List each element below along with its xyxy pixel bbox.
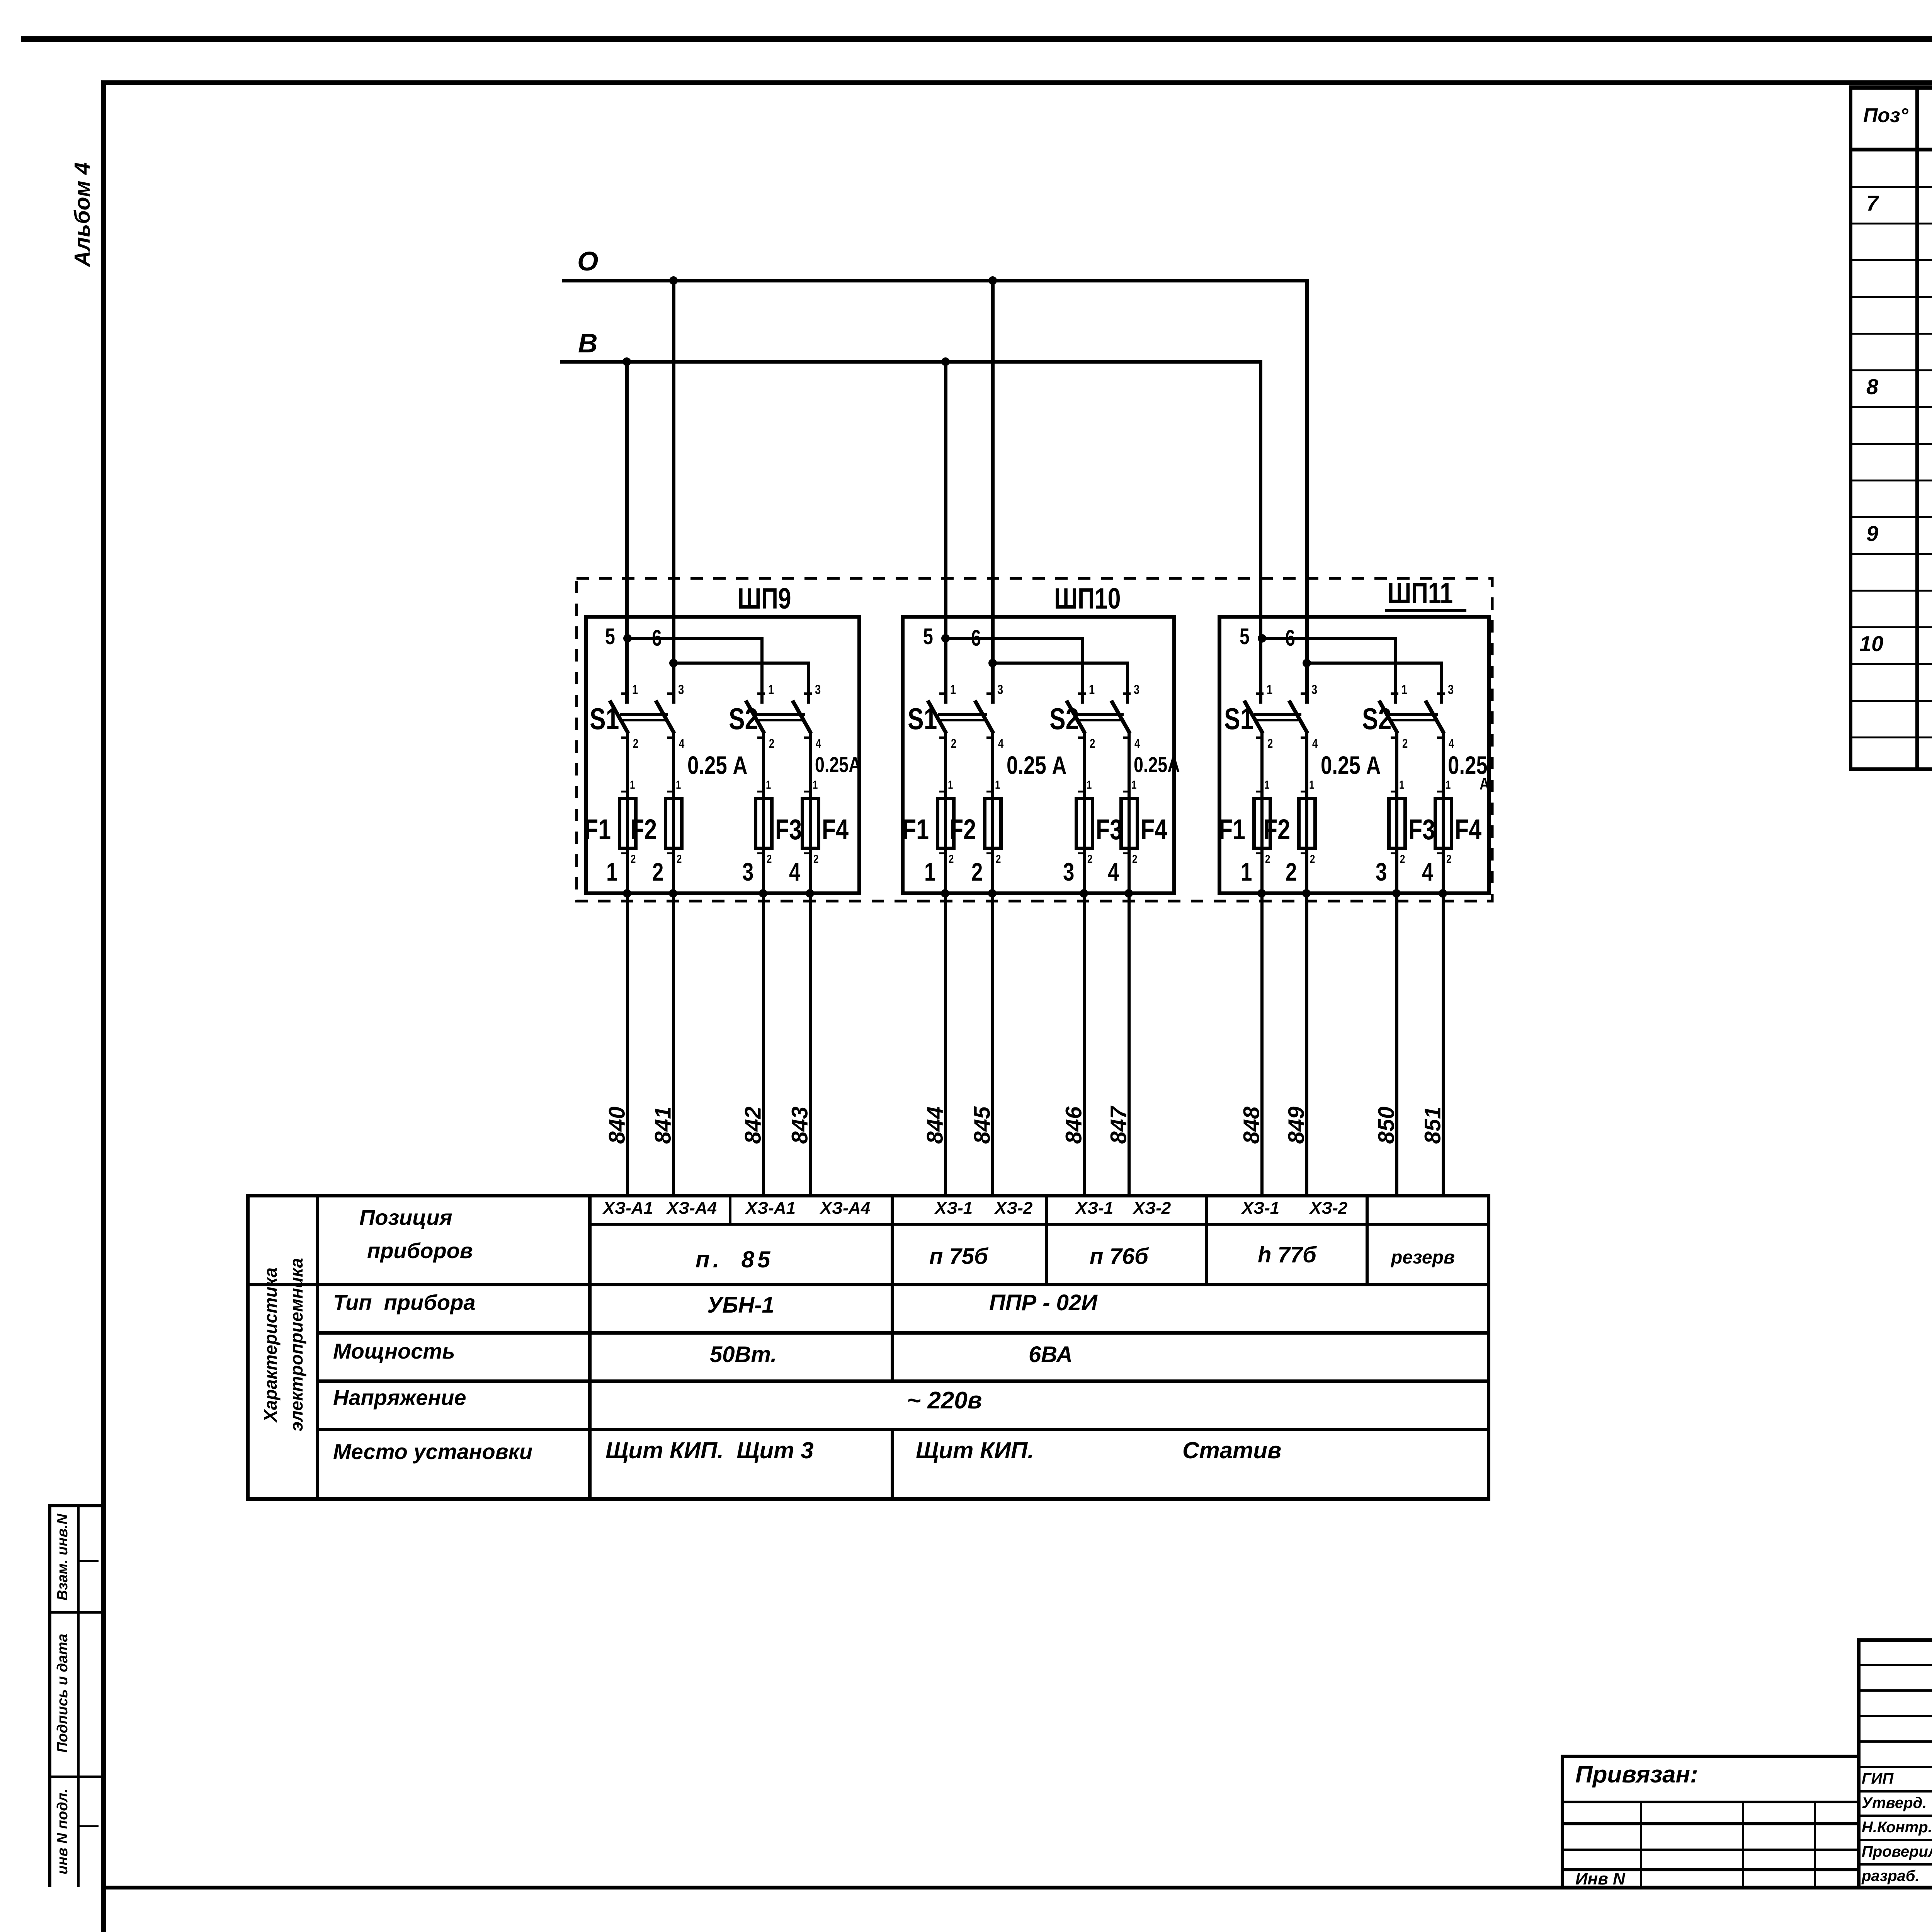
title block <box>0 0 1932 0</box>
terminal 6 <box>652 627 662 650</box>
title block names <box>0 0 1932 0</box>
rating label 0.25 A <box>1321 752 1381 779</box>
row Мощность <box>0 0 1932 0</box>
bottom terminals 1 2 3 4 <box>0 0 1932 0</box>
wire 844 <box>0 0 1932 0</box>
wire 849 <box>0 0 1932 0</box>
rating label 0.25A (right) <box>0 0 1932 0</box>
wire 842 <box>0 0 1932 0</box>
terminal 6 <box>971 627 981 650</box>
wire 847 <box>0 0 1932 0</box>
fuse F2 <box>0 0 1932 0</box>
fuse F3 <box>0 0 1932 0</box>
wire 850 <box>0 0 1932 0</box>
wire 848 <box>0 0 1932 0</box>
row Место установки <box>0 0 1932 0</box>
bottom terminals 1 2 3 4 <box>0 0 1932 0</box>
wire 843 <box>0 0 1932 0</box>
panel border <box>0 0 1932 0</box>
fuse F2 <box>0 0 1932 0</box>
drawing name <box>0 0 1932 0</box>
project description <box>0 0 1932 0</box>
terminal 5 <box>605 625 615 649</box>
bottom terminals 1 2 3 4 <box>0 0 1932 0</box>
panel ШП11 <box>0 0 1932 0</box>
switch S2 <box>0 0 1932 0</box>
wire drop O to ШП11 pin6 <box>1305 279 1309 704</box>
switch S1 <box>0 0 1932 0</box>
branch wire node5 to S2 <box>0 0 1932 0</box>
parts list table <box>0 0 1932 0</box>
wire 840 <box>0 0 1932 0</box>
rotated table title Характеристика электроприемника <box>0 0 1932 0</box>
branch wire node6 to S2 <box>0 0 1932 0</box>
switch S2 <box>0 0 1932 0</box>
frame left <box>101 80 106 1932</box>
branch wire node6 to S2 <box>0 0 1932 0</box>
switch S1 <box>0 0 1932 0</box>
rating label 0.25 A <box>687 752 748 779</box>
rating label 0.25A (right) <box>815 753 861 776</box>
document number <box>0 0 1932 0</box>
panel border <box>0 0 1932 0</box>
terminal 5 <box>923 625 933 649</box>
panel ШП10 <box>0 0 1932 0</box>
panel ШП9 <box>0 0 1932 0</box>
terminal 6 <box>1285 627 1295 650</box>
wire 851 <box>0 0 1932 0</box>
left margin cells (Взам./Подпись/Инв) <box>0 0 1932 0</box>
row label Позиция приборов <box>0 0 1932 0</box>
top border line <box>21 36 1932 42</box>
wire drop O to ШП9 pin6 <box>672 281 675 704</box>
sheet number box 21 <box>0 0 1932 0</box>
row Напряжение <box>0 0 1932 0</box>
switch S1 <box>0 0 1932 0</box>
position values <box>0 0 1932 0</box>
bus O label <box>577 247 598 276</box>
Альбом 4 vertical label <box>71 162 94 267</box>
wire 841 <box>0 0 1932 0</box>
branch wire node6 to S2 <box>0 0 1932 0</box>
bottom scan dashes <box>0 0 1932 0</box>
wire 846 <box>0 0 1932 0</box>
bus O wire <box>562 279 1308 282</box>
wire drop B to ШП11 pin5 <box>1259 360 1262 704</box>
wire 845 <box>0 0 1932 0</box>
frame inner bottom <box>101 1886 1932 1889</box>
bus B wire <box>560 360 1262 364</box>
branch wire node5 to S2 <box>0 0 1932 0</box>
wire drop B to ШП10 pin5 <box>944 362 947 704</box>
fuse F1 <box>0 0 1932 0</box>
characteristics table <box>0 0 1932 0</box>
fuse F3 <box>0 0 1932 0</box>
fuse F2 <box>0 0 1932 0</box>
switch S2 <box>0 0 1932 0</box>
row Тип прибора <box>0 0 1932 0</box>
parts table headers <box>0 0 1932 0</box>
parts rows <box>0 0 1932 0</box>
fuse F3 <box>0 0 1932 0</box>
organization <box>0 0 1932 0</box>
wire drop O to ШП10 pin6 <box>991 281 995 704</box>
fuse F1 <box>0 0 1932 0</box>
frame top <box>101 80 1932 85</box>
terminal 5 <box>1240 625 1250 649</box>
bus B label <box>578 329 598 358</box>
title block right grid <box>0 0 1932 0</box>
fuse F1 <box>0 0 1932 0</box>
fuse F4 <box>0 0 1932 0</box>
fuse F4 <box>0 0 1932 0</box>
fuse F4 <box>0 0 1932 0</box>
branch wire node5 to S2 <box>0 0 1932 0</box>
wire drop B to ШП9 pin5 <box>625 362 629 704</box>
привязан box <box>0 0 1932 0</box>
rating label 0.25A (right) <box>1134 753 1180 776</box>
стадия лист листов <box>0 0 1932 0</box>
panel border <box>0 0 1932 0</box>
rating label 0.25 A <box>1007 752 1067 779</box>
terminal headers X3 <box>0 0 1932 0</box>
